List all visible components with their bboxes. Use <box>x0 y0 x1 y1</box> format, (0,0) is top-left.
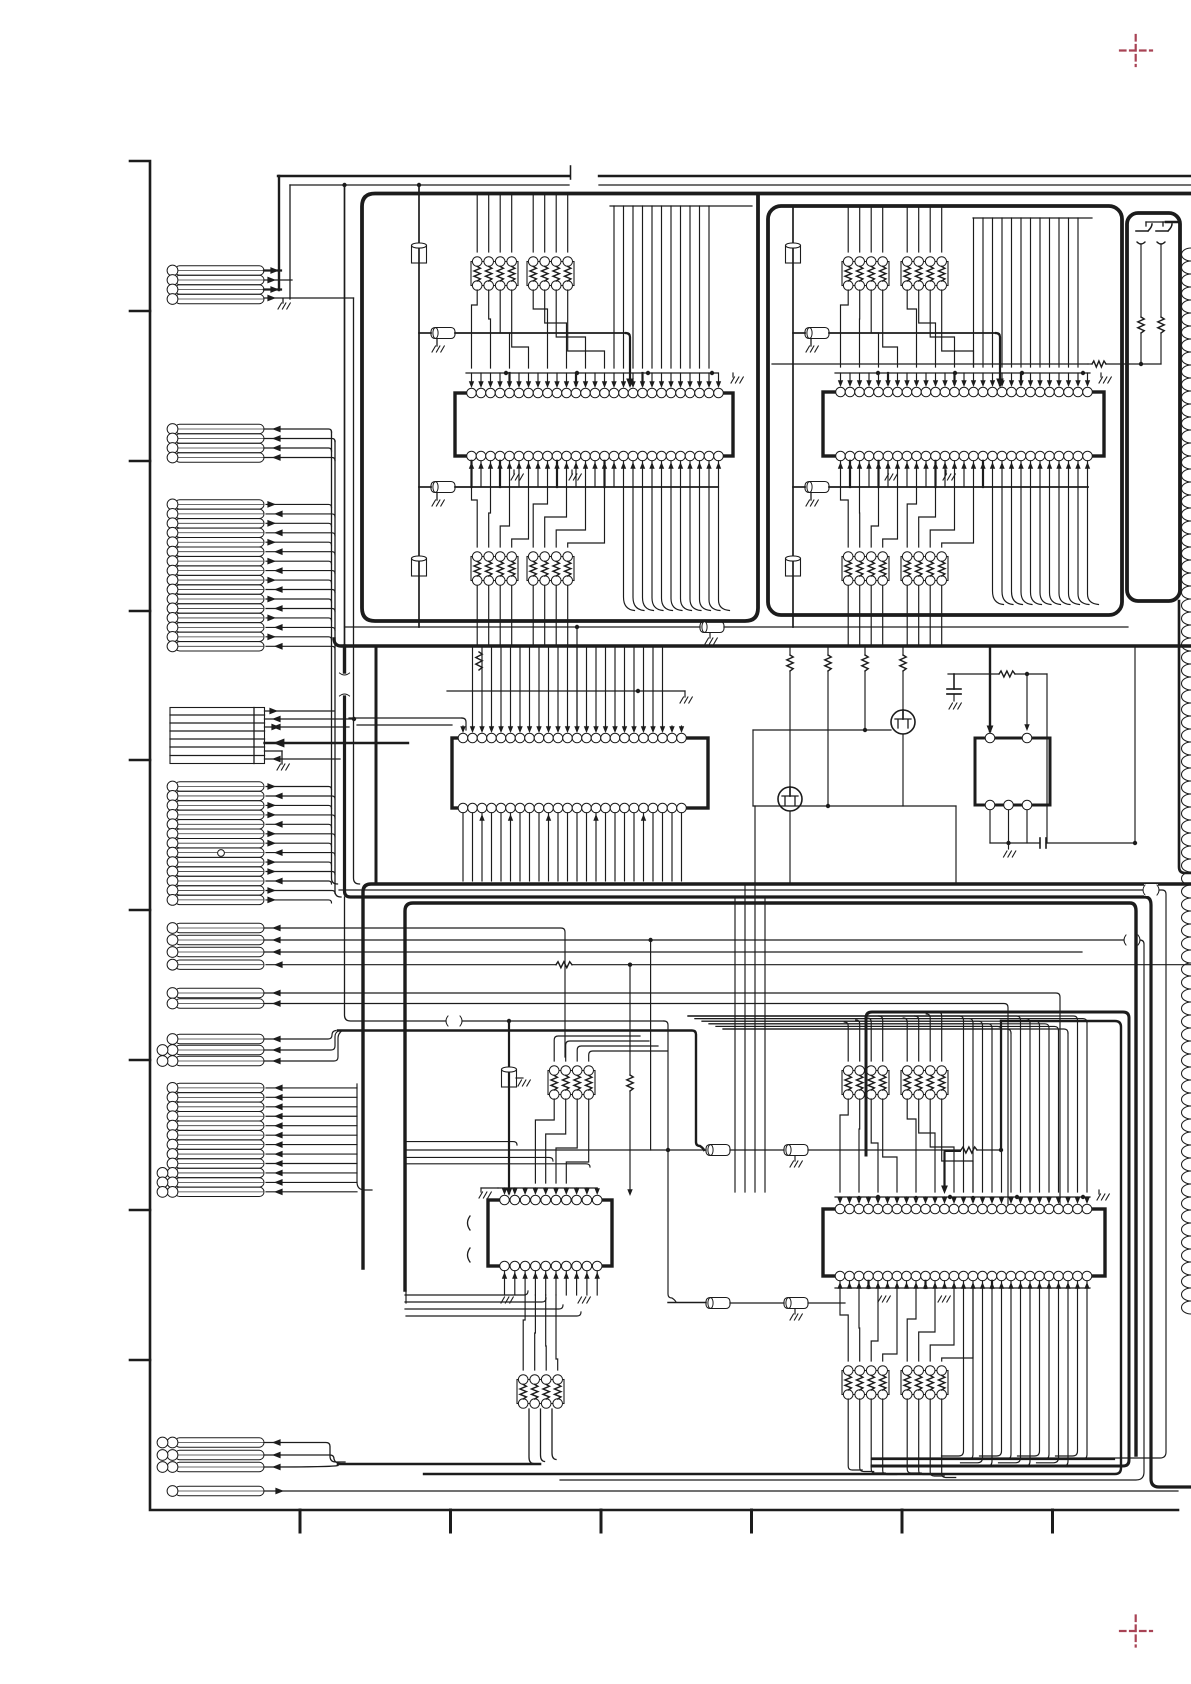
wire CN-K row <box>264 1488 1178 1495</box>
wire FB3 to pin <box>996 333 1004 388</box>
resistor network RN11 <box>842 1366 889 1400</box>
ground U1 top right <box>731 373 743 383</box>
wire CN-D row4 thick <box>265 739 409 748</box>
bead FB9 <box>784 1298 845 1309</box>
wire x577 drop <box>575 625 579 730</box>
resistor R10 <box>787 648 793 787</box>
wire U6 to RN11 RN12 <box>840 1288 973 1361</box>
wire CN-J row1 <box>264 1439 345 1462</box>
wire CN-A row3 <box>264 286 281 293</box>
wire U1 top right bundle <box>610 206 752 368</box>
wire top bus 1 <box>278 175 1191 177</box>
connector CN-E pills <box>167 781 264 905</box>
wire U3 left feeds <box>349 718 466 730</box>
bus mid y646 <box>334 639 1191 646</box>
wire R1 R2 tails <box>1139 333 1161 366</box>
wire CN-D row1 <box>265 708 335 715</box>
break net y1021 <box>446 1016 462 1026</box>
wire net y940 <box>264 937 1124 1150</box>
bead FB5 <box>700 622 1128 633</box>
wire U5 top stubs <box>498 1188 600 1195</box>
resistor network RN8 <box>901 552 948 586</box>
wire net y940 tail <box>560 940 1144 1480</box>
node marker in CN-E <box>218 850 225 857</box>
wire U5 left feeds bottom <box>405 1291 581 1316</box>
bus bottom y1459 <box>872 1458 1114 1460</box>
wire CN-D row2 <box>265 716 357 723</box>
page border frame <box>130 161 1178 1510</box>
capacitor C7 <box>1040 838 1137 848</box>
ground U1 bottom b <box>569 470 581 480</box>
resistor R5 <box>999 671 1047 677</box>
resistor R8 <box>961 1147 1003 1153</box>
block B1 outline (top-left shield) <box>362 194 1191 622</box>
ground U6 top right <box>1097 1190 1109 1200</box>
wire CN-D row3 <box>265 724 350 731</box>
bus y1030 thick <box>338 1031 704 1151</box>
wire long riser x344 <box>342 183 421 646</box>
wire B3 top feed <box>1146 222 1180 226</box>
wire CN-C bundle riser <box>266 501 335 650</box>
contact hook J2b <box>1157 242 1165 317</box>
wire RN7 RN8 tails <box>848 586 942 646</box>
ground net y691 <box>680 691 692 703</box>
bead FB2 <box>419 482 718 493</box>
registration marks <box>1120 35 1152 1647</box>
ground U1 bottom a <box>511 470 523 480</box>
wire U1 to RN3 RN4 <box>472 487 605 547</box>
wire RN9 RN10 to U6 <box>840 1099 973 1192</box>
wire net y627 <box>345 626 701 628</box>
wire net y674 <box>948 672 1029 676</box>
wire U4 pin feeds <box>987 646 1030 734</box>
break net y940 <box>1124 934 1140 946</box>
capacitor C1 <box>412 243 427 263</box>
wire bus bottom J thick <box>338 1463 540 1466</box>
wire U1 top pin stubs <box>466 371 721 388</box>
connector CN-H pills <box>157 1034 264 1067</box>
wire x1047 drop <box>1046 674 1048 843</box>
bus right x1179 <box>1179 601 1191 873</box>
wire U5 left feeds top <box>405 1142 590 1167</box>
capacitor C3 <box>786 243 801 263</box>
bead FB6 <box>706 1145 784 1156</box>
resistor R2 <box>1158 317 1164 333</box>
wire CN-I rows and bus <box>266 1084 372 1195</box>
wire net y691 <box>447 689 685 693</box>
break net y890 <box>1143 884 1159 896</box>
wire net y1150 <box>406 1143 706 1303</box>
wire U1 bottom right bundle <box>624 487 730 611</box>
wire U6 top stubs <box>835 1195 1090 1204</box>
capacitor C4 <box>786 556 801 576</box>
wire CN-D row5 gnd stub <box>265 751 283 764</box>
transistor Q1 <box>891 710 915 734</box>
wire net y1303 <box>668 1302 706 1304</box>
wire RN13 to U5 <box>535 1099 588 1183</box>
IC U5 <box>468 1195 613 1271</box>
ground FB1 <box>432 339 444 352</box>
wire U4 bottom <box>990 810 1027 849</box>
connector CN-I pills <box>157 1083 264 1198</box>
wire U6 bottom right bundle <box>942 1288 1088 1466</box>
wire CN-F rows <box>264 925 1082 1057</box>
ground U6 bottom a <box>878 1296 890 1302</box>
ground FB3 <box>806 339 818 352</box>
ground C5 <box>516 1078 530 1086</box>
wire U3 bottom fan <box>463 813 682 881</box>
resistor network RN12 <box>901 1366 948 1400</box>
wire FB1 to pin <box>626 333 634 388</box>
bead FB4 <box>793 482 1088 493</box>
capacitor C2 <box>412 556 427 576</box>
IC U4 <box>975 733 1050 810</box>
resistor network RN14 <box>517 1375 564 1409</box>
bead FB7 <box>784 1145 961 1156</box>
resistor R12 <box>862 648 868 732</box>
ground U2 top right <box>1099 373 1111 383</box>
resistor R1 <box>1138 317 1144 333</box>
wire CN-G row1 <box>264 990 1060 1204</box>
wire B2 left rail x793 <box>792 208 794 627</box>
resistor network RN13 <box>548 1066 595 1100</box>
contact hook J1b <box>1137 242 1145 317</box>
wire RN11 RN12 tails <box>848 1399 956 1478</box>
wire U6 top right bundle <box>688 1016 1087 1192</box>
resistor network RN5 <box>842 257 889 291</box>
ground C6 <box>949 703 961 709</box>
resistor R3 <box>1088 361 1161 367</box>
wire B1 left rail x419 <box>418 185 420 627</box>
ground FB7 <box>790 1156 802 1167</box>
IC U6 <box>823 1204 1105 1281</box>
connector edge arcs <box>1182 248 1191 1314</box>
wire x630 drop <box>629 965 631 1075</box>
ground U2 bottom a <box>885 470 897 480</box>
capacitor C5 <box>502 1067 517 1087</box>
wire CN-H rows <box>264 1031 342 1065</box>
resistor network RN9 <box>842 1066 889 1100</box>
wire net y1021b <box>462 1019 676 1302</box>
IC U3 <box>452 733 708 813</box>
block B3 outline (right narrow shield) <box>1127 213 1180 601</box>
connector CN-J pills <box>157 1437 264 1472</box>
wire U5 gnd stub <box>479 1188 498 1198</box>
connector CN-G pills <box>167 988 264 1009</box>
connector CN-A pills <box>167 265 264 304</box>
bus mid riser thick x344 <box>345 646 1191 1487</box>
wire U3 top fan <box>460 648 684 733</box>
resistor network RN7 <box>842 552 889 586</box>
break riser x344 <box>340 673 350 696</box>
wire RN5 RN6 to U2 <box>841 290 974 367</box>
wire U2 to RN7 RN8 <box>841 487 974 547</box>
block B4b outline <box>866 1012 1129 1466</box>
ground FB2 <box>432 493 444 506</box>
ground U2 bottom b <box>943 470 955 480</box>
wire RN14 to bus J <box>529 1409 556 1464</box>
wire CN-J row2 <box>264 1452 340 1464</box>
wire CN-G row2 <box>264 1000 1008 1204</box>
wire U5 bottom stubs <box>502 1271 600 1295</box>
bus y1021 thick <box>424 1021 1121 1474</box>
resistor R11 <box>825 648 831 808</box>
resistor R7 <box>476 652 482 670</box>
wire net y965 <box>266 961 1191 968</box>
wire mid-right mesh <box>753 730 956 884</box>
IC U2 <box>823 387 1104 461</box>
wire net y890 tail <box>872 890 1166 1458</box>
wire net y843 <box>990 842 1040 844</box>
wire CN-A row1 <box>264 267 281 274</box>
switch contact J1 <box>1136 224 1152 231</box>
wire RN13 feeds <box>554 1036 667 1061</box>
ground U6 bottom b <box>938 1296 950 1302</box>
resistor network RN3 <box>471 552 518 586</box>
connector CN-K pill <box>167 1486 264 1497</box>
capacitor C6 <box>947 674 961 701</box>
wire CN-E bundle riser <box>266 783 335 903</box>
bead FB3 <box>793 328 996 339</box>
resistor R6 <box>627 1075 633 1196</box>
wire net y890 <box>339 889 1143 891</box>
wire CN-A row4 <box>264 295 354 302</box>
wire x1001 thick drop <box>941 1021 1001 1194</box>
border left ticks <box>130 311 150 1360</box>
wire RN1 RN2 to U1 <box>472 290 605 368</box>
resistor network RN10 <box>901 1066 948 1100</box>
wire CN-A row2 <box>264 277 292 284</box>
bus mid riser x376 <box>375 646 378 884</box>
wire RN1 RN2 feeds <box>477 195 568 252</box>
wire U6 bottom stubs <box>835 1281 1090 1289</box>
wire riser pair b <box>335 441 341 897</box>
wire RN3 RN4 tails <box>477 586 568 646</box>
ground FB9 <box>790 1309 802 1320</box>
transistor Q2 <box>778 787 802 811</box>
connector CN-F pills <box>167 923 264 971</box>
ground U4 <box>1004 851 1016 857</box>
wire long riser x353 <box>354 298 360 884</box>
wire riser thick x279 <box>278 176 280 290</box>
wire gap mark <box>570 166 572 179</box>
wire RN5 RN6 feeds <box>848 208 942 252</box>
wire riser x344 lower <box>345 897 447 1021</box>
resistor R13 <box>900 648 906 710</box>
wire x509 drop <box>506 1021 513 1196</box>
wire riser x290 <box>289 185 291 299</box>
wire RN9 RN10 feeds <box>844 1012 942 1061</box>
ground FB4 <box>806 493 818 506</box>
wire U2 top pin stubs <box>835 371 1090 387</box>
wire U1 bottom pin stubs <box>469 461 721 487</box>
wire riser pair a <box>332 432 338 884</box>
bead FB1 <box>419 328 626 339</box>
ground U5 bottom a <box>501 1297 513 1303</box>
connector CN-B pills <box>167 424 264 463</box>
wire CN-J row3 <box>264 1464 338 1471</box>
ground CN-D <box>277 764 289 770</box>
connector CN-D table <box>170 708 265 764</box>
connector CN-C pills <box>167 499 264 652</box>
wire U5 to RN14 <box>523 1295 558 1370</box>
block B2 outline (top-right shield) <box>768 206 1122 615</box>
wire U2 bottom right bundle <box>993 487 1099 605</box>
resistor network RN2 <box>527 257 574 291</box>
ground U5 bottom b <box>578 1297 590 1303</box>
wire U2 bottom pin stubs <box>838 461 1090 487</box>
resistor network RN6 <box>901 257 948 291</box>
ground CN-A <box>278 299 290 309</box>
wire CN-D row6 <box>265 756 341 763</box>
wire CN-B rows <box>264 426 335 461</box>
wire bus drops <box>735 806 765 1192</box>
wire U2 top right bundle <box>973 218 1092 367</box>
wire x1135 drop <box>1134 646 1136 843</box>
border bottom ticks <box>300 1510 1053 1532</box>
switch contact J2 <box>1156 224 1172 231</box>
IC U1 <box>455 388 733 461</box>
bus mid thick P2 <box>363 884 1191 1268</box>
resistor network RN4 <box>527 552 574 586</box>
bead FB8 <box>706 1298 784 1309</box>
resistor network RN1 <box>471 257 518 291</box>
wire R3 left <box>772 363 1088 365</box>
wire top bus 2 <box>290 184 1191 186</box>
ground FB5 <box>705 633 717 644</box>
bus mid thick P3 <box>405 903 1136 1455</box>
